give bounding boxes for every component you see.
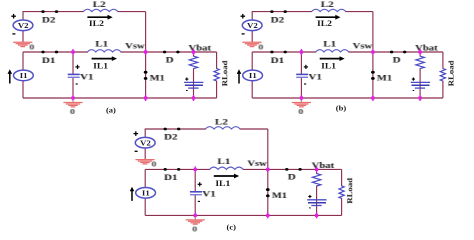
svg-text:V2: V2	[18, 22, 29, 30]
svg-text:RLoad: RLoad	[346, 177, 354, 203]
svg-text:D1: D1	[271, 56, 285, 65]
svg-text:V1: V1	[202, 190, 216, 199]
voltage source V2 (a)	[11, 14, 33, 34]
svg-text:L1: L1	[95, 40, 108, 49]
wire: middle rail I1 to L1 (b)	[252, 51, 316, 53]
node: Vbat (a)	[193, 49, 195, 55]
wire: RLoad branch upper (a)	[216, 52, 218, 69]
wire: Vbat branch upper (a)	[193, 52, 195, 57]
svg-text:0: 0	[152, 160, 158, 169]
svg-text:IL1: IL1	[321, 61, 336, 70]
wire: M1 branch Vsw to bottom rail (a)	[145, 52, 147, 98]
svg-text:L1: L1	[323, 40, 336, 49]
wire: vertical drop from L2 to node Vsw (b)	[372, 12, 374, 52]
wire: top rail from V2 to L2 (b)	[252, 11, 312, 13]
load resistor RLoad (b)	[440, 60, 455, 86]
battery Vbat (a)	[184, 78, 203, 91]
diode D2 (a)	[41, 10, 58, 25]
wire: I1 bottom lead (a)	[22, 80, 24, 98]
ground 0 below V1 (c)	[186, 217, 205, 233]
current arrow IL1 (a)	[92, 56, 117, 70]
inductor L2 (a)	[83, 0, 118, 11]
wire: top rail from L2 to corner (c)	[240, 128, 268, 130]
wire: V2 positive lead (a)	[22, 11, 24, 20]
wire: Vbat branch upper (b)	[419, 52, 421, 57]
node: M1 at bottom rail (b)	[372, 95, 374, 101]
MOSFET switch M1 (c)	[266, 188, 287, 200]
node: V1 junction (a)	[72, 49, 74, 55]
wire: I1 top lead (b)	[251, 52, 253, 71]
svg-text:M1: M1	[150, 74, 165, 83]
svg-text:L2: L2	[321, 0, 334, 9]
wire: middle rail L1 to Vsw (b)	[348, 51, 373, 53]
wire: V2 negative lead to ground (c)	[144, 148, 146, 160]
svg-text:RLoad: RLoad	[447, 60, 455, 86]
wire: Vbat node to right corner (c)	[317, 168, 342, 170]
wire: top rail from V2 to L2 (a)	[23, 11, 84, 13]
svg-text:(b): (b)	[336, 104, 347, 112]
node: battery at bottom rail (a)	[193, 95, 195, 101]
load resistor RLoad (a)	[214, 60, 229, 86]
svg-text:L1: L1	[217, 157, 230, 166]
inductor L1 (b)	[316, 40, 349, 52]
wire: I1 bottom lead (b)	[251, 80, 253, 98]
wire: M1 branch Vsw to bottom rail (b)	[372, 52, 374, 98]
svg-text:I1: I1	[142, 189, 150, 197]
node: Vbat (b)	[419, 49, 421, 55]
wire: middle rail L1 to Vsw (c)	[243, 168, 268, 170]
wire: middle rail L1 to Vsw (a)	[121, 51, 146, 53]
wire: RLoad branch lower (a)	[216, 81, 218, 98]
svg-text:V2: V2	[247, 22, 258, 30]
wire: top rail from L2 to corner (b)	[345, 11, 373, 13]
wire: V2 negative lead to ground (a)	[22, 30, 24, 42]
svg-text:V1: V1	[80, 72, 94, 81]
svg-text:IL2: IL2	[89, 19, 105, 28]
wire: V2 negative lead to ground (b)	[251, 30, 253, 42]
wire: middle rail I1 to L1 (c)	[145, 168, 210, 170]
node: V1 junction (b)	[300, 49, 302, 55]
MOSFET switch M1 (b)	[371, 71, 392, 83]
svg-text:RLoad: RLoad	[221, 60, 229, 86]
battery internal resistor (b)	[416, 56, 424, 68]
diode D (b)	[390, 51, 407, 65]
current arrow IL2 (b)	[316, 15, 341, 28]
node: battery at bottom rail (c)	[316, 212, 318, 218]
wire: bottom rail (b)	[252, 97, 443, 99]
voltage source V2 (b)	[241, 14, 263, 34]
svg-text:I1: I1	[249, 72, 257, 80]
node: Vbat (c)	[316, 166, 318, 172]
wire: Vbat branch lower (a)	[193, 68, 195, 98]
arrow of current source I1 (b)	[238, 73, 240, 84]
svg-text:IL2: IL2	[317, 19, 333, 28]
capacitor V1 (a)	[68, 65, 94, 84]
ground 0 below V1 (b)	[292, 100, 311, 116]
wire: V1 branch lower (c)	[194, 195, 196, 216]
capacitor V1 (b)	[296, 65, 322, 84]
current source I1 (a)	[14, 70, 34, 81]
svg-text:0: 0	[298, 107, 304, 116]
ground 0 below V1 (a)	[63, 100, 82, 116]
wire: top rail from V2 to L2 (c)	[145, 128, 206, 130]
diode D1 (a)	[41, 51, 58, 66]
wire: bottom rail (a)	[23, 97, 217, 99]
wire: V1 branch lower (b)	[300, 77, 302, 98]
current source I1 (b)	[243, 70, 263, 81]
wire: vertical drop from L2 to node Vsw (a)	[145, 12, 147, 52]
svg-text:M1: M1	[377, 74, 392, 83]
svg-text:Vsw: Vsw	[247, 160, 267, 169]
inductor L1 (a)	[87, 40, 121, 52]
svg-text:D: D	[393, 55, 401, 64]
MOSFET switch M1 (a)	[144, 71, 165, 83]
svg-text:D2: D2	[271, 15, 285, 24]
diode D2 (b)	[270, 10, 287, 25]
wire: middle rail Vsw to Vbat (c)	[268, 168, 317, 170]
current arrow IL1 (b)	[320, 56, 345, 70]
arrow of current source I1 (c)	[131, 190, 133, 201]
node: Vsw (a)	[145, 49, 147, 55]
svg-text:D1: D1	[164, 173, 178, 182]
svg-text:(c): (c)	[226, 223, 236, 231]
wire: vertical drop from L2 to node Vsw (c)	[267, 129, 269, 169]
wire: I1 top lead (c)	[144, 169, 146, 188]
svg-text:0: 0	[70, 107, 76, 116]
node: V1 at bottom rail (b)	[300, 95, 302, 101]
diode D (c)	[285, 168, 302, 182]
node: V1 junction (c)	[194, 166, 196, 172]
diode D (a)	[163, 51, 180, 65]
svg-text:0: 0	[29, 42, 35, 51]
inductor L2 (c)	[205, 118, 240, 129]
wire: I1 bottom lead (c)	[144, 198, 146, 216]
svg-text:D1: D1	[42, 56, 56, 65]
voltage source V2 (c)	[134, 131, 156, 151]
wire: Vbat branch lower (c)	[316, 186, 318, 216]
node: Vsw (b)	[372, 49, 374, 55]
battery Vbat (b)	[411, 78, 430, 91]
inductor L2 (b)	[312, 0, 346, 11]
current arrow IL2 (a)	[87, 15, 112, 28]
svg-text:IL1: IL1	[93, 61, 108, 70]
svg-text:Vsw: Vsw	[353, 43, 373, 52]
wire: RLoad branch lower (c)	[341, 198, 343, 215]
capacitor V1 (c)	[190, 182, 216, 201]
wire: V1 branch upper (b)	[300, 52, 302, 75]
wire: V1 branch upper (c)	[194, 169, 196, 192]
node: M1 at bottom rail (a)	[145, 95, 147, 101]
svg-text:0: 0	[258, 42, 264, 51]
svg-text:L2: L2	[93, 0, 106, 9]
svg-text:L2: L2	[215, 118, 228, 127]
wire: Vbat node to right corner (b)	[420, 51, 443, 53]
wire: RLoad branch upper (c)	[341, 169, 343, 186]
node: V1 at bottom rail (c)	[194, 212, 196, 218]
wire: middle rail Vsw to Vbat (a)	[146, 51, 194, 53]
svg-text:V2: V2	[140, 139, 151, 147]
battery Vbat (c)	[307, 195, 326, 208]
wire: top rail from L2 to corner (a)	[117, 11, 145, 13]
wire: middle rail Vsw to Vbat (b)	[373, 51, 420, 53]
svg-text:(a): (a)	[106, 106, 116, 114]
svg-text:Vsw: Vsw	[125, 43, 145, 52]
ground 0 below V2 (c)	[135, 160, 157, 169]
wire: middle rail I1 to L1 (a)	[23, 51, 88, 53]
wire: RLoad branch lower (b)	[442, 81, 444, 98]
current source I1 (c)	[136, 188, 156, 199]
wire: Vbat branch lower (b)	[419, 68, 421, 98]
node: M1 at bottom rail (c)	[267, 212, 269, 218]
node: V1 at bottom rail (a)	[72, 95, 74, 101]
svg-text:V1: V1	[308, 72, 322, 81]
svg-text:D: D	[166, 55, 174, 64]
svg-text:M1: M1	[272, 192, 287, 201]
wire: Vbat node to right corner (a)	[194, 51, 217, 53]
diode D2 (c)	[164, 128, 181, 143]
battery internal resistor (c)	[312, 174, 320, 186]
svg-text:D2: D2	[42, 15, 56, 24]
svg-text:I1: I1	[20, 72, 28, 80]
svg-text:D2: D2	[164, 133, 178, 142]
diode D1 (b)	[270, 51, 287, 66]
svg-text:IL1: IL1	[215, 179, 230, 188]
inductor L1 (c)	[210, 157, 244, 169]
battery internal resistor (a)	[189, 56, 197, 68]
ground 0 below V2 (b)	[242, 42, 264, 51]
wire: RLoad branch upper (b)	[442, 52, 444, 69]
wire: bottom rail (c)	[145, 214, 341, 216]
wire: I1 top lead (a)	[22, 52, 24, 71]
svg-text:D: D	[288, 173, 296, 182]
wire: V1 branch upper (a)	[72, 52, 74, 75]
ground 0 below V2 (a)	[13, 42, 35, 51]
arrow of current source I1 (a)	[9, 73, 11, 84]
wire: Vbat branch upper (c)	[316, 169, 318, 174]
wire: V2 positive lead (b)	[251, 11, 253, 20]
wire: V2 positive lead (c)	[144, 129, 146, 138]
current arrow IL1 (c)	[214, 174, 239, 188]
node: battery at bottom rail (b)	[419, 95, 421, 101]
load resistor RLoad (c)	[339, 177, 354, 203]
wire: M1 branch Vsw to bottom rail (c)	[267, 169, 269, 215]
diode D1 (c)	[164, 168, 181, 183]
node: Vsw (c)	[267, 166, 269, 172]
wire: V1 branch lower (a)	[72, 77, 74, 98]
svg-text:0: 0	[192, 225, 198, 233]
